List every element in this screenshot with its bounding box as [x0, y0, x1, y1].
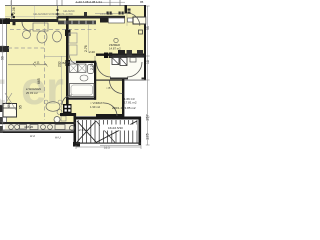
bathroom door arc	[70, 56, 79, 65]
room fill: central corridor	[67, 16, 96, 116]
left edge dark marks lower	[0, 117, 3, 122]
door blocks bedroom south	[104, 53, 108, 59]
svg-text:○ BAD: ○ BAD	[60, 61, 68, 65]
room fill: top balcony band	[5, 6, 145, 19]
stair diagonals	[77, 121, 96, 142]
balcony divider x=11	[10, 0, 13, 19]
left margin dimension chain	[1, 19, 5, 131]
interior dim line 411	[8, 63, 48, 67]
living fixtures upper	[23, 23, 62, 43]
svg-text:95: 95	[140, 0, 144, 4]
kitchen south wall	[60, 113, 76, 116]
balcony divider x34	[34, 6, 36, 19]
top ticks	[57, 0, 120, 6]
svg-text:206/1.4-73.85 m2: 206/1.4-73.85 m2	[112, 106, 136, 110]
bedroom west wall	[125, 5, 128, 14]
svg-text:17.81 m2: 17.81 m2	[124, 100, 137, 104]
svg-text:1.99 m2: 1.99 m2	[90, 105, 101, 109]
stair mid text band	[100, 125, 137, 131]
dining table	[46, 102, 60, 112]
wall knob	[65, 29, 71, 36]
bathroom walls	[76, 61, 96, 63]
bottom outer line	[0, 130, 74, 131]
bedroom south wall	[96, 54, 146, 56]
east outer wall	[144, 5, 146, 80]
svg-text:16.5: 16.5	[104, 146, 110, 150]
balcony divider x=110	[95, 13, 125, 15]
window symbols balcony	[57, 9, 131, 17]
balcony divider x=57	[56, 6, 59, 17]
svg-text:A U: A U	[30, 134, 35, 138]
WC white	[110, 56, 144, 79]
bedroom door arc	[127, 13, 140, 26]
top margin dim chain	[11, 1, 125, 6]
annotation texts lower right	[24, 61, 137, 150]
room fill: left living room	[6, 18, 67, 122]
balcony bottom wall left	[0, 19, 58, 22]
left dark mark lower	[0, 105, 4, 112]
stair east wall	[139, 117, 142, 145]
tiny text row balcony	[33, 10, 113, 16]
lower right door arc	[110, 81, 123, 94]
sofa bottom left	[3, 104, 17, 118]
svg-text:448.20: 448.20	[24, 125, 34, 129]
svg-text:18: 18	[146, 60, 150, 64]
room fill: vorrat + lower yellow	[96, 79, 123, 116]
right lower vertical wall	[122, 79, 124, 118]
diagonal marks bottom-left	[5, 93, 16, 110]
stair circle mark	[70, 126, 75, 131]
rotated dim texts	[1, 7, 151, 140]
corridor shelves	[69, 33, 77, 43]
vertical wall left of stairs	[74, 113, 77, 143]
bathroom white	[68, 61, 96, 100]
WC fixtures	[112, 58, 119, 65]
svg-text:-2.31: -2.31	[78, 128, 85, 132]
svg-text:665: 665	[37, 78, 41, 84]
top outer wall line	[5, 5, 145, 6]
balcony bottom wall right	[57, 16, 125, 19]
right margin white	[146, 0, 150, 150]
toilet	[88, 65, 94, 74]
wall y80 right section	[96, 80, 124, 81]
central vertical wall	[66, 16, 69, 105]
top-left wall chunk	[0, 18, 10, 24]
stair north wall	[76, 117, 141, 120]
bedroom furniture top right	[133, 17, 146, 24]
kitchen corridor door arc	[62, 95, 72, 105]
washer box 1	[70, 64, 78, 73]
stair treads	[78, 120, 137, 143]
vorrat room wall	[96, 114, 124, 117]
svg-text:25.03 m2: 25.03 m2	[26, 91, 38, 95]
svg-text:466: 466	[7, 102, 11, 108]
svg-text:2.06: 2.06	[12, 7, 16, 14]
dashed lines	[8, 22, 96, 120]
wall connector x57	[57, 16, 59, 22]
svg-text:2.76: 2.76	[84, 45, 88, 52]
svg-text:95: 95	[19, 105, 23, 109]
top dimension text	[76, 0, 144, 4]
room fill: bedroom right	[96, 6, 145, 54]
WC room walls	[110, 56, 144, 58]
door arc top-left	[22, 22, 31, 31]
svg-text:n. AUSW: n. AUSW	[63, 13, 73, 16]
svg-text:125: 125	[145, 133, 150, 140]
corridor door arc	[97, 63, 112, 78]
vorrat door arc	[104, 103, 117, 116]
svg-text:157: 157	[145, 114, 150, 121]
terrace strip below	[5, 124, 73, 129]
svg-text:A↑U: A↑U	[55, 136, 61, 140]
watermark letters	[0, 62, 64, 114]
svg-text:○ B: ○ B	[106, 86, 110, 90]
window hinge marks	[11, 14, 13, 16]
left wall chunk mid	[0, 46, 9, 52]
kitchen sink circle	[54, 117, 60, 123]
kitchen stove block	[63, 104, 72, 113]
wardrobe row below top wall	[58, 21, 96, 25]
terrace fixtures	[9, 125, 65, 130]
bottom wall of plan	[0, 122, 76, 124]
right margin dim chain	[146, 6, 150, 145]
stair bottom line	[76, 143, 141, 144]
svg-text:14.87 m2: 14.87 m2	[109, 46, 121, 50]
svg-text:95: 95	[146, 26, 150, 30]
svg-text:4.11: 4.11	[34, 61, 40, 65]
WC door arc	[127, 62, 142, 77]
left outer wall	[6, 18, 7, 122]
svg-text:GELAENDER SONNENSCH.: GELAENDER SONNENSCH.	[33, 13, 65, 16]
bathtub	[70, 84, 95, 97]
bedroom dresser bottom	[118, 50, 125, 56]
svg-text:2.20: 2.20	[89, 50, 95, 54]
sink	[80, 75, 88, 81]
svg-text:16x16.5/30: 16x16.5/30	[108, 126, 123, 130]
svg-text:2.20: 2.20	[90, 63, 94, 70]
bottom margin marks	[76, 145, 141, 149]
washer box 2	[78, 64, 86, 73]
room fill: corridor right part	[96, 54, 110, 79]
room labels	[26, 38, 121, 109]
